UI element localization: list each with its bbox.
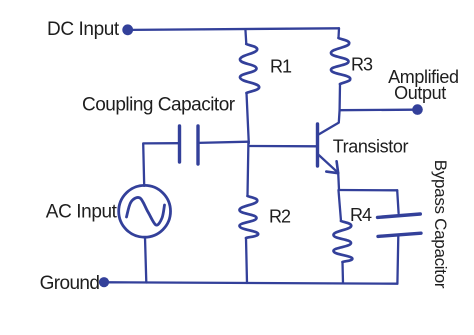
wire R3 top lead bbox=[337, 28, 340, 38]
wire ground rail bbox=[109, 282, 397, 283]
resistor R3 bbox=[331, 38, 350, 84]
resistor R4 bbox=[333, 221, 352, 262]
transistor Q1 emitter lead bbox=[318, 155, 337, 173]
AC source sine wave bbox=[127, 197, 165, 225]
wire emitter down lead bbox=[337, 173, 340, 190]
resistor R1 bbox=[240, 44, 259, 93]
svg-text:R1: R1 bbox=[270, 56, 292, 76]
node amplified output terminal dot bbox=[412, 104, 423, 115]
node DC input terminal dot bbox=[122, 24, 133, 35]
svg-text:AC Input: AC Input bbox=[46, 201, 118, 222]
svg-text:Output: Output bbox=[394, 83, 446, 103]
svg-text:DC Input: DC Input bbox=[47, 19, 120, 40]
svg-text:Coupling Capacitor: Coupling Capacitor bbox=[82, 94, 236, 115]
wire R1 top lead bbox=[244, 29, 247, 44]
wire amplified output bbox=[340, 109, 413, 112]
transistor Q1 base bar bbox=[316, 124, 319, 166]
svg-text:R3: R3 bbox=[351, 54, 373, 74]
svg-text:Ground: Ground bbox=[40, 273, 100, 294]
wire R3 bottom lead to collector node bbox=[338, 84, 341, 110]
wire R2 bottom lead bbox=[246, 238, 247, 283]
AC source circle bbox=[119, 185, 171, 237]
wire AC source bottom lead bbox=[145, 237, 146, 282]
wire R4 bottom lead bbox=[341, 262, 344, 283]
svg-text:R4: R4 bbox=[350, 205, 372, 225]
wire R2 top lead bbox=[246, 143, 249, 196]
transistor Q1 collector lead bbox=[319, 110, 340, 134]
capacitor bypass, bottom plate bbox=[378, 233, 421, 236]
svg-text:Bypass Capacitor: Bypass Capacitor bbox=[431, 160, 450, 289]
node ground terminal dot bbox=[99, 277, 109, 287]
capacitor bypass, top plate bbox=[378, 214, 421, 217]
capacitor coupling, right plate bbox=[196, 126, 199, 164]
wire R4 top lead bbox=[339, 190, 342, 221]
wire bypass capacitor top lead bbox=[397, 190, 398, 213]
wire base node to transistor base bbox=[249, 145, 317, 148]
wire top rail (DC input to R3) bbox=[132, 28, 339, 30]
wire R1 bottom lead to base node bbox=[247, 93, 249, 143]
capacitor coupling, left plate bbox=[178, 126, 181, 162]
transistor Q1 emitter arrowhead bbox=[326, 161, 338, 173]
svg-text:R2: R2 bbox=[269, 207, 291, 227]
resistor R2 bbox=[239, 196, 258, 238]
wire coupling capacitor left lead bbox=[143, 143, 179, 186]
wire emitter node to bypass branch bbox=[339, 189, 398, 192]
wire bypass capacitor bottom lead bbox=[396, 236, 399, 283]
svg-text:Transistor: Transistor bbox=[333, 136, 409, 156]
wire coupling capacitor right lead bbox=[198, 142, 249, 143]
